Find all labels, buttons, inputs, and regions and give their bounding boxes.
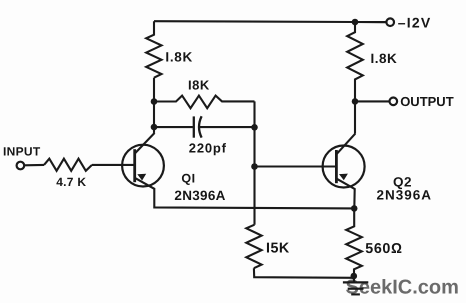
node junction R6 bottom / ground bbox=[351, 273, 358, 280]
svg-text:INPUT: INPUT bbox=[3, 144, 41, 158]
node junction common emitters bbox=[351, 205, 358, 212]
transistor Q1 collector lead bbox=[135, 133, 155, 154]
resistor R3 4.7K (input series) bbox=[44, 159, 92, 171]
svg-text:I.8K: I.8K bbox=[371, 51, 398, 66]
wire 15K bottom lead and bottom ground wire bbox=[254, 268, 354, 278]
node junction R1 / 18K bbox=[151, 98, 158, 105]
svg-text:OUTPUT: OUTPUT bbox=[400, 94, 454, 109]
terminal OUTPUT circle bbox=[390, 98, 398, 106]
transistor Q2 circle bbox=[323, 146, 365, 188]
node junction OUTPUT / R4 bbox=[352, 98, 359, 105]
svg-text:2N396A: 2N396A bbox=[174, 188, 225, 203]
terminal INPUT circle bbox=[17, 162, 25, 170]
resistor R2 18K (feedback to Q2 base) bbox=[154, 96, 255, 109]
resistor R6 560 ohm (common emitter) bbox=[346, 208, 362, 277]
svg-text:4.7 K: 4.7 K bbox=[56, 175, 86, 189]
resistor R4 1.8K (right, Q2 collector load) bbox=[347, 22, 363, 101]
svg-text:560Ω: 560Ω bbox=[365, 241, 402, 257]
node junction R1 / C1 bbox=[151, 124, 158, 131]
transistor Q1 base bar bbox=[133, 149, 136, 182]
node junction top rail / R4 bbox=[352, 19, 359, 26]
wire input lead bbox=[24, 164, 44, 167]
svg-text:220pf: 220pf bbox=[189, 140, 227, 155]
svg-text:QI: QI bbox=[181, 172, 195, 186]
transistor Q1 circle bbox=[122, 145, 164, 187]
wire -12V terminal lead bbox=[355, 21, 387, 23]
capacitor C1 220pf flat plate bbox=[193, 116, 195, 137]
ground bar 3 bbox=[351, 293, 360, 295]
ground bar 2 bbox=[348, 288, 364, 290]
transistor Q1 emitter lead and wire to common emitter node bbox=[135, 178, 354, 209]
svg-text:I5K: I5K bbox=[266, 240, 290, 256]
svg-text:I.8K: I.8K bbox=[165, 49, 193, 64]
svg-text:SeekIC.com: SeekIC.com bbox=[346, 276, 459, 298]
wire Q2 base lead from divider node bbox=[255, 165, 337, 167]
wire Q1 collector node vertical bbox=[153, 78, 155, 133]
ground bar 1 bbox=[343, 281, 368, 283]
svg-text:–I2V: –I2V bbox=[398, 15, 432, 31]
capacitor C1 220pf curved plate bbox=[199, 116, 202, 137]
wire 18K right end down to Q2 base node bbox=[253, 101, 255, 224]
capacitor C1 220pf left lead bbox=[154, 126, 193, 128]
wire 4.7K to Q1 base bbox=[92, 164, 135, 166]
resistor R5 15K (Q2 base to ground) bbox=[246, 225, 261, 269]
transistor Q2 emitter arrow bbox=[339, 174, 348, 181]
node junction C1 right / divider bbox=[251, 124, 258, 131]
transistor Q2 base bar bbox=[335, 150, 338, 183]
node junction Q2 base / divider bbox=[251, 163, 258, 170]
svg-text:2N396A: 2N396A bbox=[377, 188, 433, 203]
wire OUTPUT lead bbox=[355, 100, 390, 102]
ground lead bbox=[353, 278, 355, 282]
svg-text:I8K: I8K bbox=[188, 78, 210, 93]
transistor Q2 collector lead bbox=[336, 134, 355, 155]
capacitor C1 220pf right lead bbox=[200, 126, 255, 128]
transistor Q2 emitter lead bbox=[336, 179, 354, 209]
transistor Q1 emitter arrow bbox=[137, 174, 146, 181]
wire top supply rail bbox=[154, 21, 387, 22]
terminal -12V circle bbox=[386, 18, 394, 26]
wire Q2 collector node vertical bbox=[354, 101, 356, 133]
resistor R1 1.8K (left, Q1 collector load) bbox=[146, 21, 161, 77]
